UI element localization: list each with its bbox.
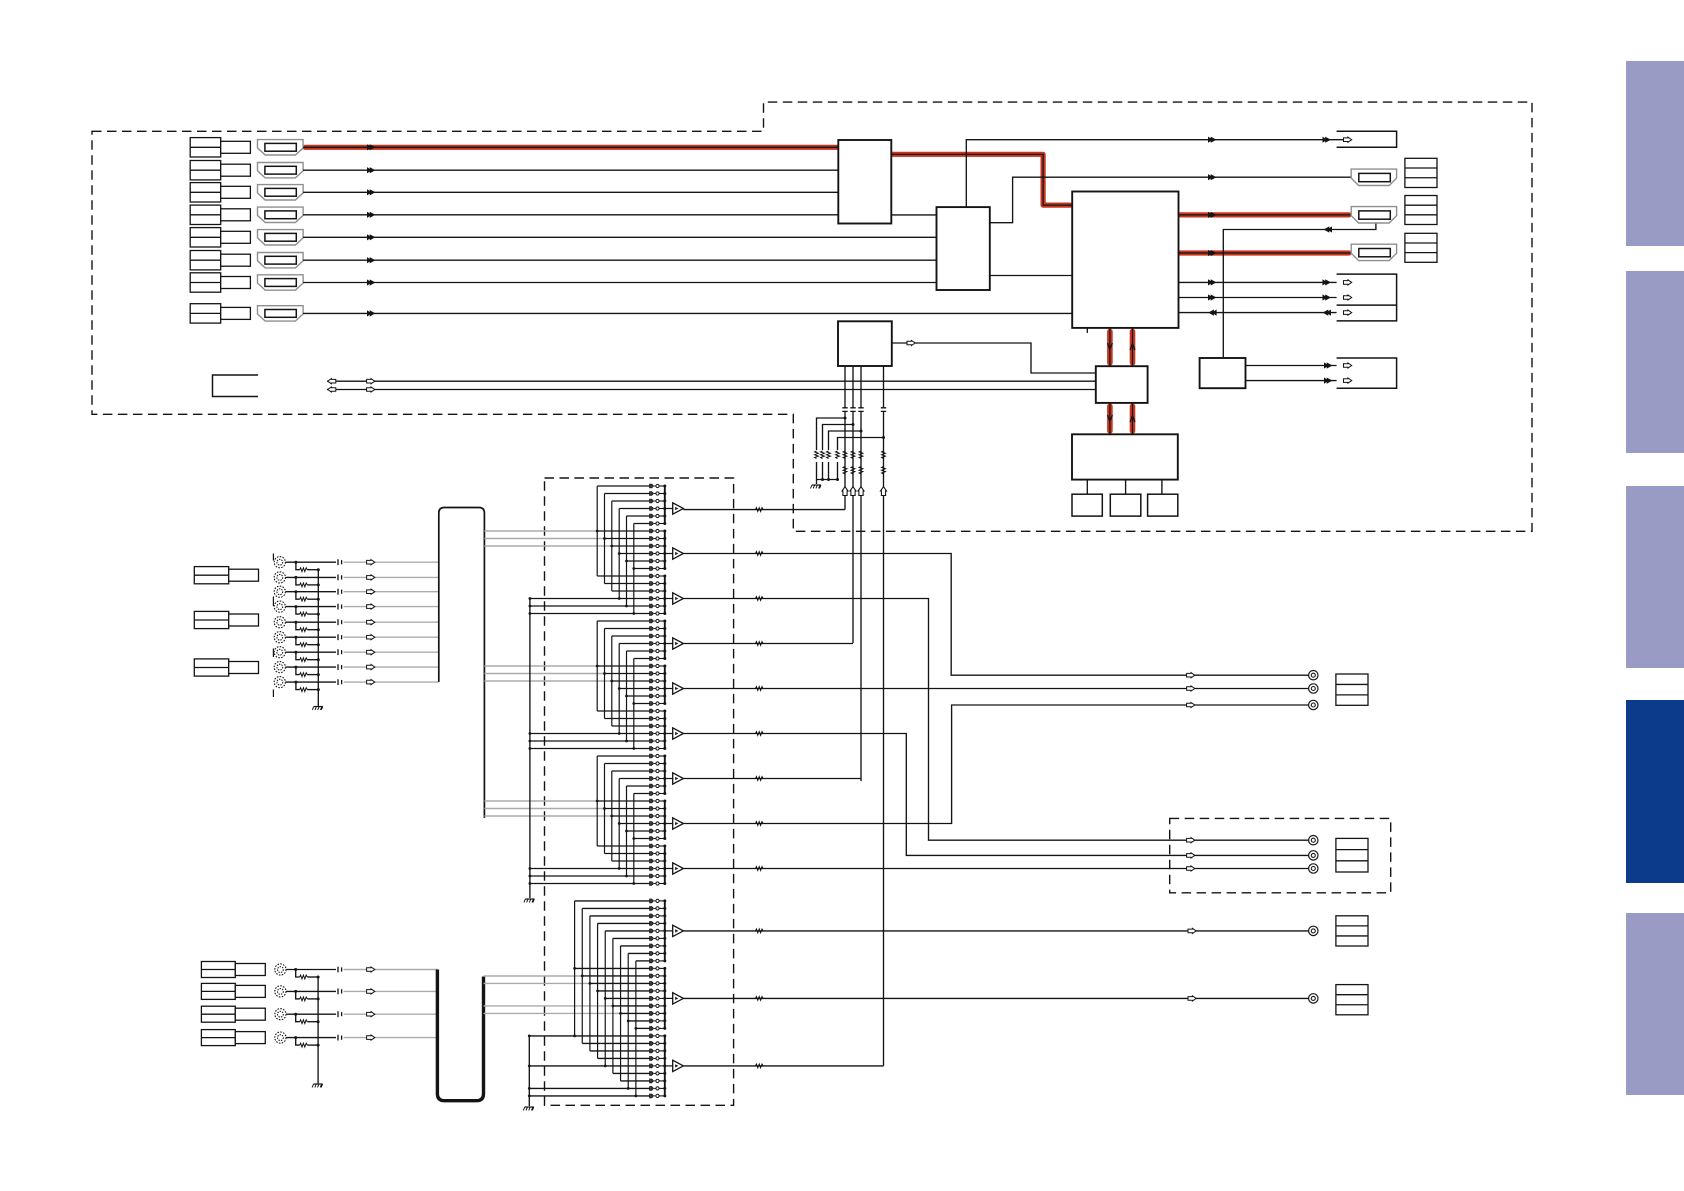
- PRE OUT label box 1: [1336, 916, 1368, 946]
- wire RCA9 to coupling cap: [286, 681, 337, 684]
- wire op-amp A8 output to CN-REC out row3: [683, 702, 1308, 825]
- wire bus feed group1 line2: [484, 538, 604, 540]
- sidebar tab 1: [1626, 61, 1684, 246]
- sidebar tab 3: [1626, 486, 1684, 668]
- HDMI input connector J1: [190, 138, 303, 157]
- HDMI receiver U1: [838, 140, 891, 224]
- wire DSP serial line 1 (U4 down to op-amp row): [842, 366, 848, 510]
- terminal bracket box U7 outputs: [1337, 358, 1397, 388]
- wire RCA11 to coupling cap: [286, 990, 336, 993]
- op-amp buffer A3: [673, 593, 684, 604]
- wire op-amp A9 output to zone row3: [683, 866, 1308, 871]
- ground GND3: [312, 1084, 323, 1087]
- resistor R4c: [882, 467, 886, 475]
- red highlight: U3 to HDMI MAIN OUT: [1180, 212, 1349, 217]
- selector contact bank 8: [650, 799, 673, 840]
- ground GND1: [811, 485, 822, 488]
- analog input label box L5: [201, 983, 265, 999]
- HDMI input connector J5: [190, 228, 303, 247]
- RCA input jack CN2: [274, 572, 285, 583]
- selector contact bank 2: [650, 529, 673, 570]
- dashed box: analog input selector section outline: [545, 478, 734, 1105]
- resistor R1c: [843, 467, 847, 475]
- wire core: U3 to HDMI SUB OUT: [1179, 250, 1352, 256]
- wire RCA7 to bus: [344, 650, 439, 655]
- wire RCA2 to coupling cap: [286, 576, 337, 579]
- RCA group brackets: [272, 554, 274, 698]
- op-amp buffer A7: [673, 773, 684, 784]
- resistor R3c: [859, 467, 863, 475]
- resistor divider R4a: [836, 436, 885, 480]
- red highlight: HDMI1 input to U1: [305, 145, 838, 150]
- wire op-amp A4 output to DSP line2: [683, 642, 853, 646]
- REC OUT jack 3: [1309, 700, 1318, 709]
- wire DSP serial line 2 (U4 down to op-amp row): [850, 366, 856, 643]
- PRE OUT label box 2: [1336, 985, 1368, 1015]
- control micro U4: [838, 321, 892, 366]
- sidebar tab 4 (current page, dark): [1626, 700, 1684, 883]
- shunt resistor R16: [296, 637, 320, 646]
- wire bus feed group2 line3: [484, 680, 611, 682]
- PRE OUT jack 1: [1309, 926, 1318, 935]
- HDMI output connector OUT1: [1351, 169, 1396, 185]
- coupling capacitor C12: [338, 575, 342, 581]
- shunt resistor R21: [296, 970, 320, 979]
- wire U2 to HDMI out1: [990, 177, 1351, 223]
- wire U4 control to U5: [892, 340, 1096, 373]
- wire RCA6 to coupling cap: [286, 636, 337, 639]
- ground GND2: [312, 707, 323, 710]
- wire core: U3-U5 bus B: [1130, 328, 1135, 366]
- wire RCA13 to coupling cap: [286, 1036, 336, 1039]
- op-amp buffer A2: [673, 548, 684, 559]
- wire RCA2 to bus: [344, 575, 439, 580]
- resistor R2c: [851, 467, 855, 475]
- wire bus feed group1 line3: [484, 545, 611, 547]
- crystal X3: [1148, 494, 1178, 516]
- wire bus feed group4 line2: [484, 982, 590, 984]
- wire U3 DDC line G: [1179, 294, 1352, 300]
- wire op-amp A6 output to zone row2: [683, 732, 1308, 858]
- selector contact bank 6: [650, 709, 673, 750]
- HDMI SUB OUT label box: [1405, 233, 1437, 262]
- red highlight: U3-U5 bus A: [1107, 332, 1113, 363]
- red highlight: U1 to U3 video path: [891, 154, 1070, 205]
- RCA input jack CN4: [274, 601, 285, 612]
- shunt resistor R19: [296, 682, 320, 691]
- coupling capacitor C11: [338, 559, 342, 565]
- wire RCA5 to bus: [344, 620, 439, 625]
- shunt resistor R15: [296, 622, 320, 631]
- wire RCA6 to bus: [344, 635, 439, 640]
- coupling capacitor C21: [338, 967, 342, 973]
- ground GND4: [524, 899, 535, 902]
- wire HDMI4 pass-through U1 to U2: [891, 214, 936, 216]
- wire OSD clock to U5: [327, 387, 1096, 392]
- node arrow U2-HDMIout1: [1208, 174, 1216, 180]
- wire core: U3-U5 bus A: [1107, 328, 1112, 366]
- red highlight: U3-U5 bus B: [1130, 332, 1136, 363]
- input selector ladder group 1: [529, 486, 650, 615]
- selector contact bank 10: [650, 899, 673, 963]
- wire HDMI4 signal: [303, 212, 838, 218]
- analog input label box L3: [194, 659, 258, 676]
- coupling capacitor C17: [338, 649, 342, 655]
- resistor R3b: [859, 451, 863, 459]
- audio input bus ribbon (bottom, U-shape): [437, 970, 483, 1101]
- wire U3 DDC line F: [1179, 279, 1352, 285]
- wire bus feed group1 line1: [484, 530, 597, 532]
- RCA input jack CN7: [274, 647, 285, 658]
- HDMI input connector J8: [190, 304, 303, 323]
- wire HDMI6 signal: [303, 257, 936, 263]
- REC OUT jack 2: [1309, 684, 1318, 693]
- wire HDMI3 signal: [303, 189, 838, 195]
- RCA input jack CN5: [274, 617, 285, 628]
- REC OUT jack 1: [1309, 671, 1318, 680]
- sidebar tab 5: [1626, 913, 1684, 1095]
- coupling capacitor C24: [338, 1035, 342, 1041]
- RCA input jack CN6: [274, 632, 285, 643]
- wire RCA10 to coupling cap: [286, 968, 336, 971]
- input selector ladder group 4: [528, 901, 650, 1097]
- wire op-amp A11 output to sub pre-out 2: [683, 996, 1308, 1001]
- selector contact bank 3: [650, 574, 673, 615]
- shunt resistor R23: [296, 1014, 320, 1023]
- video encoder U5: [1096, 366, 1148, 403]
- ground GND5: [523, 1107, 534, 1110]
- analog input label box L2: [194, 611, 258, 628]
- wire bus feed group4 line1: [484, 975, 583, 977]
- op-amp buffer A6: [673, 728, 684, 739]
- wire bus feed group3 line2: [484, 808, 604, 810]
- OSD generator box (open right): [213, 375, 259, 397]
- selector contact bank 11: [650, 967, 673, 1031]
- wire core: U1 to U3 video path: [891, 154, 1072, 205]
- op-amp buffer A5: [673, 683, 684, 694]
- dashed box: HDMI input / digital processing section outline: [92, 102, 1532, 531]
- op-amp buffer A4: [673, 638, 684, 649]
- op-amp buffer A9: [673, 863, 684, 874]
- resistor divider R2a: [821, 423, 855, 480]
- wire bus feed group2 line2: [484, 673, 604, 675]
- dashed box: multi-zone pre-out section outline: [1170, 818, 1391, 892]
- wire RCA8 to coupling cap: [286, 666, 337, 669]
- coupling capacitor C16: [338, 634, 342, 640]
- shunt resistor R13: [296, 592, 320, 601]
- wire OSD data to U5: [327, 379, 1096, 384]
- RCA input jack CN12: [275, 1009, 286, 1020]
- shunt resistor R22: [296, 991, 320, 1000]
- op-amp buffer A11: [673, 993, 684, 1004]
- REC OUT label box: [1336, 674, 1368, 705]
- ground rail group1: [317, 570, 319, 706]
- wire U7 output 2: [1246, 378, 1352, 384]
- wire bus feed group3 line1: [484, 800, 597, 802]
- wire RCA13 to bus: [344, 1035, 438, 1040]
- op-amp buffer A8: [673, 818, 684, 829]
- red highlight: U5-U6 bus A: [1107, 406, 1113, 431]
- resistor R2b: [851, 451, 855, 459]
- coupling capacitor C15: [338, 619, 342, 625]
- coupling capacitor C13: [338, 589, 342, 595]
- wire bus feed group4 line4: [484, 1012, 621, 1014]
- wire RCA12 to bus: [344, 1012, 438, 1017]
- HDMI input connector J7: [190, 273, 303, 292]
- RCA input jack CN1: [274, 557, 285, 568]
- wire op-amp A10 output to sub pre-out: [683, 928, 1308, 933]
- wire RCA4 to coupling cap: [286, 605, 337, 608]
- ZONE OUT jack 3: [1309, 864, 1318, 873]
- shunt resistor R12: [296, 577, 320, 586]
- wire HDMI8 signal: [303, 310, 1072, 316]
- wire HDMI out1 HPD return to U7: [1223, 223, 1376, 358]
- wire HDMI1 signal: [303, 144, 838, 150]
- node output A arrows: [1208, 137, 1352, 143]
- selector contact bank 12: [650, 1034, 673, 1098]
- coupling capacitor C18: [338, 664, 342, 670]
- coupling capacitor C22: [338, 989, 342, 995]
- RCA input jack CN8: [274, 662, 285, 673]
- wire RCA5 to coupling cap: [286, 621, 337, 624]
- analog input label box L6: [201, 1006, 265, 1022]
- wire HDMI2 signal: [303, 167, 838, 173]
- wire core: U5-U6 bus B: [1130, 403, 1135, 434]
- ground rail group2: [317, 977, 319, 1083]
- HDMI output connector SUB OUT: [1351, 244, 1396, 260]
- op-amp buffer A1: [673, 503, 684, 514]
- wire RCA12 to coupling cap: [286, 1013, 336, 1016]
- wire RCA1 to bus: [344, 560, 439, 565]
- shunt resistor R14: [296, 607, 320, 616]
- wire op-amp A7 output to DSP line3: [683, 777, 861, 781]
- HDMI input connector J4: [190, 205, 303, 224]
- coupling capacitor C19: [338, 679, 342, 685]
- wire bus feed group2 line1: [484, 665, 597, 667]
- resistor divider R1a: [815, 417, 847, 480]
- crystal X2: [1110, 494, 1141, 516]
- terminal bracket box A: [1337, 131, 1397, 147]
- op-amp buffer A12: [673, 1060, 684, 1071]
- coupling capacitor C23: [338, 1011, 342, 1017]
- HDMI MAIN OUT label box: [1405, 196, 1437, 225]
- pin stub U3 bottom: [1086, 328, 1088, 333]
- crystal X1: [1072, 494, 1102, 516]
- HDMI output connector MAIN OUT: [1351, 207, 1396, 223]
- wire RCA8 to bus: [344, 665, 439, 670]
- HDMI input connector J6: [190, 251, 303, 270]
- ZONE OUT jack 1: [1309, 836, 1318, 845]
- wire RCA10 to bus: [344, 967, 438, 972]
- analog input label box L1: [194, 567, 258, 584]
- wire U6 to crystal X3: [1161, 480, 1163, 495]
- RCA input jack CN13: [275, 1032, 286, 1043]
- shunt resistor R17: [296, 652, 320, 661]
- resistor divider R3a: [827, 430, 863, 480]
- analog input label box L4: [201, 962, 265, 978]
- input selector ladder group 3: [529, 756, 650, 885]
- selector contact bank 7: [650, 754, 673, 795]
- op-amp buffer A10: [673, 925, 684, 936]
- wire U6 to crystal X1: [1086, 480, 1088, 495]
- RCA input jack CN10: [275, 964, 286, 975]
- PRE OUT jack 2: [1309, 994, 1318, 1003]
- DSP U6: [1072, 434, 1178, 479]
- wire RCA11 to bus: [344, 989, 438, 994]
- red highlight: U3 to HDMI SUB OUT: [1180, 250, 1349, 255]
- wire op-amp A1 output to DSP line1: [683, 508, 845, 512]
- terminal bracket box DDC/CEC: [1337, 274, 1397, 321]
- wire U2 status up to output A: [966, 140, 1345, 207]
- wire op-amp A12 output to DSP line4: [683, 1064, 883, 1068]
- wire U2 to U3: [990, 275, 1072, 277]
- RCA input jack CN11: [275, 986, 286, 997]
- wire U3 CEC line H (return): [1179, 310, 1352, 316]
- coupling capacitor C14: [338, 604, 342, 610]
- input selector ladder group 2: [529, 621, 650, 750]
- resistor R1b: [843, 451, 847, 459]
- wire core: U5-U6 bus A: [1107, 403, 1112, 434]
- audio input bus ribbon (top): [439, 508, 485, 818]
- wire RCA3 to coupling cap: [286, 590, 337, 593]
- ground bus for selector group 4: [528, 1036, 530, 1106]
- ground bus for selector groups 1-3: [529, 599, 531, 899]
- wire RCA9 to bus: [344, 680, 439, 685]
- wire op-amp A2 output to CN-REC out row1: [683, 552, 1308, 678]
- HDMI transmitter / repeater U3: [1072, 192, 1178, 328]
- selector contact bank 4: [650, 619, 673, 660]
- wire DSP serial line 3 (U4 down to op-amp row): [858, 366, 864, 781]
- wire HDMI7 signal: [303, 279, 936, 285]
- wire U6 to crystal X2: [1125, 480, 1127, 495]
- wire bus feed group4 line3: [484, 1005, 613, 1007]
- selector contact bank 5: [650, 664, 673, 705]
- HDMI receiver U2: [937, 207, 990, 290]
- RCA input jack CN3: [274, 586, 285, 597]
- wire DSP serial line 4 (U4 down to op-amp row): [881, 366, 887, 1066]
- wire RCA7 to coupling cap: [286, 651, 337, 654]
- CEC buffer U7: [1200, 358, 1246, 388]
- wire op-amp A3 output to zone row1: [683, 597, 1308, 843]
- pull-down common rail: [817, 478, 840, 484]
- selector contact bank 9: [650, 844, 673, 885]
- wire U7 output 1: [1246, 362, 1352, 368]
- ZONE OUT label box: [1336, 838, 1368, 872]
- wire RCA1 to coupling cap: [286, 561, 337, 564]
- HDMI OUT1 label box: [1405, 158, 1437, 187]
- RCA input jack CN9: [274, 677, 285, 688]
- shunt resistor R11: [296, 562, 320, 571]
- analog input label box L7: [201, 1030, 265, 1046]
- sidebar tab 2: [1626, 271, 1684, 453]
- HDMI input connector J3: [190, 183, 303, 202]
- shunt resistor R24: [296, 1038, 320, 1047]
- wire RCA4 to bus: [344, 604, 439, 609]
- resistor R4b: [882, 451, 886, 459]
- wire op-amp A5 output to CN-REC out row2: [683, 686, 1308, 691]
- shunt resistor R18: [296, 667, 320, 676]
- ZONE OUT jack 2: [1309, 851, 1318, 860]
- wire HDMI5 signal: [303, 234, 936, 240]
- wire RCA3 to bus: [344, 589, 439, 594]
- wire bus feed group3 line3: [484, 815, 611, 817]
- red highlight: U5-U6 bus B: [1130, 406, 1136, 431]
- wire core: U3 to HDMI MAIN OUT: [1179, 212, 1352, 218]
- HDMI input connector J2: [190, 161, 303, 180]
- selector contact bank 1: [650, 484, 673, 525]
